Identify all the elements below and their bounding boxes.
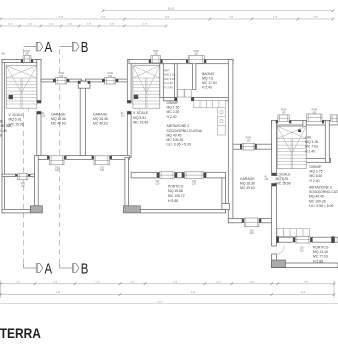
svg-text:MC 109.26: MC 109.26 [0,134,2,138]
wall portico2 right corner [222,204,230,210]
door jamb [204,172,207,178]
svg-text:MQ 5.91: MQ 5.91 [276,177,289,181]
label window north [108,73,113,78]
dimension bottom row 2 [0,292,335,296]
pillar portico3 [272,260,286,267]
door jamb [16,174,18,177]
svg-text:MC 109.72: MC 109.72 [168,194,185,198]
stair unit3 [277,126,306,168]
svg-text:H 2.40: H 2.40 [310,179,320,183]
garage3 door [244,218,259,227]
label stair2 [133,111,149,125]
svg-text:WC 15.96: WC 15.96 [276,182,291,186]
wall unit2 left lower [127,112,131,158]
svg-text:MQ 13.16: MQ 13.16 [313,250,328,254]
svg-text:MC 49.63: MC 49.63 [51,122,66,126]
svg-text:t.d.i. 9.56 > 5.09: t.d.i. 9.56 > 5.09 [309,204,334,208]
svg-text:MQ 3.18: MQ 3.18 [305,140,318,144]
svg-text:MQ 15.68: MQ 15.68 [168,189,183,193]
dim left end [0,281,2,298]
wall garage front w [36,156,47,160]
svg-text:MC 49.63: MC 49.63 [93,122,108,126]
door jamb [53,79,56,82]
window garage2 north [105,77,116,84]
wall bagno left [193,63,196,90]
label abitazione3 [309,186,338,208]
door jamb [21,60,23,63]
jamb unit1 door top [37,100,41,103]
svg-text:MQ 18.36: MQ 18.36 [240,182,255,186]
door jamb [182,172,185,178]
svg-text:GARAGE: GARAGE [51,113,66,117]
svg-text:SOGGIORNO-CUCINA: SOGGIORNO-CUCINA [0,124,12,128]
svg-text:120: 120 [55,169,60,172]
wall portico2 right [222,178,226,210]
wall connecting unit2-unit3 [233,144,272,149]
label disimp3 [310,165,323,183]
jamb unit3 door top [272,173,277,176]
wall unit1 top [2,60,41,63]
svg-text:MQ 7.8: MQ 7.8 [202,76,213,80]
door arc unit3 portico [276,246,284,254]
wall rip right [175,64,178,98]
door jamb [322,120,324,123]
section marker B bottom [60,264,72,268]
window portico3 [295,236,310,243]
window unit3 north3 [331,115,338,122]
jamb unit1 door bottom [37,112,41,115]
wall unit3 bottom [272,263,338,268]
wall unit1 bottom e [30,174,35,177]
window garage1 north [56,77,67,84]
label window unit1 south [21,182,26,188]
window bagno north [188,56,204,64]
jamb portico3 west [276,237,279,243]
wall unit2 top [129,60,233,64]
door jamb [88,81,90,84]
wall unit3 left lower [272,254,277,267]
door jamb [64,156,66,160]
door jamb [161,60,163,64]
door jamb [149,60,151,64]
wall portico3 top mid [312,237,331,242]
section arrow B top [72,40,88,56]
svg-text:PORTICO: PORTICO [313,246,329,250]
svg-text:120: 120 [250,232,255,235]
svg-text:POM: POM [312,110,317,112]
label abitazione2 [167,124,203,146]
wall portico1 side [35,156,39,206]
stair unit1 [6,66,37,109]
pillar portico2 [123,206,140,213]
kitchen counter unit2 [194,101,225,135]
svg-text:B: B [81,40,89,56]
svg-text:16.10: 16.10 [168,8,175,11]
dimension row C (partials) [0,24,167,28]
svg-text:WC 15.96: WC 15.96 [133,121,148,125]
wall garage1 top [41,79,82,82]
label door1 [42,113,47,118]
door jamb [191,97,194,100]
svg-text:120: 120 [155,183,160,186]
door jamb [47,156,49,160]
door jamb [310,237,312,242]
door arc unit2 [131,103,140,112]
door jamb [259,218,261,222]
wall garage divider [80,81,85,156]
section marker B top [60,46,72,48]
svg-text:H 5.88: H 5.88 [313,259,323,263]
stair unit2 [133,66,160,109]
svg-text:DISIMP.: DISIMP. [310,165,322,169]
window unit2 south [160,172,175,179]
door jamb [242,218,244,222]
wall unit2 bottom w [131,172,157,178]
label garage1 [51,113,66,126]
label bagno [202,72,217,90]
label window connecting [246,138,251,143]
svg-text:120: 120 [192,183,197,186]
svg-text:SOGGIORNO-CUCINA: SOGGIORNO-CUCINA [167,129,203,133]
svg-text:MQ 18.36: MQ 18.36 [51,117,66,121]
window unit3 north1 [278,115,289,122]
door jamb [92,156,94,160]
door jamb [175,172,178,178]
window unit1 north [23,56,31,63]
jamb unit2 door top [127,100,131,103]
wall portico2 left [125,158,129,206]
stair1 arrow [9,95,13,99]
wall portico3 top w [276,237,293,242]
svg-text:MQ 40.45: MQ 40.45 [167,133,182,137]
label window portico3 [300,247,305,253]
label window left edge [1,54,6,56]
svg-text:GARAGE: GARAGE [93,113,108,117]
jamb portico3 door [332,236,335,243]
svg-text:SOGGIORNO-CUCINA: SOGGIORNO-CUCINA [309,190,338,194]
wall unit3 left upper [272,120,277,175]
sheet line [0,301,338,303]
wall garage front mid [66,156,92,160]
svg-text:MC 2.26: MC 2.26 [167,110,180,114]
pillar portico1 [30,206,42,213]
svg-text:H 2.40: H 2.40 [167,115,177,119]
section line B dashed [59,49,61,264]
door jamb [174,97,177,100]
label rip room [164,69,175,90]
window unit3 north2 [307,114,322,122]
door arc unit1 [28,103,37,112]
svg-text:ABITAZIONE 1: ABITAZIONE 1 [0,120,6,124]
garage2 door [94,156,110,165]
svg-text:120: 120 [100,169,105,172]
label portico2 [168,184,185,203]
svg-text:H 2.40: H 2.40 [305,149,315,153]
door jamb [28,174,30,177]
svg-text:MQ 2.75: MQ 2.75 [310,170,323,174]
svg-text:MC 7.63: MC 7.63 [305,145,318,149]
label portico3 [313,246,329,264]
stair2 arrow [134,95,138,99]
label window unit3 north [312,110,317,115]
curb portico1 [2,209,30,213]
svg-text:TERRA: TERRA [0,325,41,341]
door jamb [305,120,307,123]
wall unit3 left mid [272,184,277,247]
hall double door [177,89,191,97]
label window north [193,51,198,56]
svg-text:MC 109.26: MC 109.26 [309,199,326,203]
wall stair2/rip [160,64,164,98]
door jamb [110,156,112,160]
door unit2 south [185,172,204,179]
label disimp2 [167,101,180,119]
svg-text:GARAGE: GARAGE [240,177,255,181]
stair3 arrow [298,130,301,133]
svg-text:BAGNO: BAGNO [202,72,215,76]
door jamb [116,79,119,82]
svg-text:V. SCALE: V. SCALE [9,113,25,117]
door jamb [276,120,278,123]
svg-text:H 2.40: H 2.40 [164,85,173,89]
wall unit1/garage1 lower [37,112,41,160]
door jamb [293,237,295,242]
svg-text:t.d.i. 9.36 > 5.09: t.d.i. 9.36 > 5.09 [167,143,192,147]
jamb unit2 door bottom [127,112,131,115]
door jamb [289,120,291,123]
wall garage divider head [78,81,90,88]
svg-text:41.10: 41.10 [157,301,163,303]
svg-text:MC 77.03: MC 77.03 [313,255,328,259]
dim right end [333,281,335,298]
svg-text:120: 120 [21,185,26,188]
wall hall south w [163,97,177,100]
wall lav bottom [303,158,331,162]
window unit1 south [18,173,28,179]
dimension row B (segments) [0,17,334,21]
svg-text:ABITAZIONE 2: ABITAZIONE 2 [167,124,190,128]
label garage3 [240,177,255,190]
window connecting wall [242,143,255,150]
wall stair3/lav [303,120,306,162]
svg-text:120: 120 [300,249,305,252]
wall hall south e [191,97,228,100]
door jamb [31,60,33,63]
label window unit2 south [155,180,160,186]
svg-text:H 5.88: H 5.88 [168,199,178,203]
svg-text:POM: POM [193,51,198,53]
svg-text:A: A [45,262,53,278]
kitchen counter unit3 [277,229,310,237]
wall unit3 top [272,120,338,125]
wall unit2 bottom e [206,172,226,178]
door jamb [255,144,257,149]
svg-text:POM: POM [281,110,286,112]
label garage3 door [250,230,255,236]
svg-text:MQ 40.45: MQ 40.45 [0,129,7,133]
door jamb [204,60,206,64]
svg-text:MQ 40.45: MQ 40.45 [309,195,324,199]
svg-text:POM: POM [59,73,64,75]
wall unit1/garage1 upper [37,60,41,104]
svg-text:PORTICO: PORTICO [168,184,184,188]
svg-text:MC 109.26: MC 109.26 [167,138,184,142]
svg-text:MQ 18.36: MQ 18.36 [93,117,108,121]
label window north [153,51,158,56]
wall unit1 bottom w [2,174,16,177]
wall lav right [325,120,329,162]
garage1 door [50,156,65,165]
label stair3 [276,173,292,186]
section marker A top [24,46,36,48]
door jamb [67,79,70,82]
svg-text:ABITAZIONE 3: ABITAZIONE 3 [309,186,332,190]
wall garage3 bottom e [261,218,272,222]
svg-text:V. SCALE: V. SCALE [133,111,149,115]
svg-text:MQ 1.50: MQ 1.50 [167,106,180,110]
section arrow A top [36,40,52,56]
label stair1 [9,113,25,127]
svg-text:B: B [81,262,89,278]
svg-text:POM: POM [153,51,158,53]
door jamb [157,172,160,178]
label door2 [121,113,126,118]
wall portico3 top e [335,237,338,242]
door arc unit3 garage [276,176,284,184]
wall garage front e [112,156,130,160]
wall unit1 left edge [2,60,5,213]
wall garage2 top [86,79,130,82]
svg-text:H 2.40: H 2.40 [202,86,212,90]
svg-text:A: A [45,40,53,56]
wall unit2 left upper [127,60,131,104]
label garage2 door [100,166,105,172]
label garage1 door [55,166,60,172]
svg-text:MC 17.54: MC 17.54 [202,81,217,85]
jamb unit3 door bottom [272,184,277,187]
section line A dashed [23,49,25,264]
section marker A bottom [24,264,36,268]
label door3 [265,177,270,182]
door jamb [186,60,188,64]
curb portico2 [140,209,225,213]
label window north [59,73,64,78]
wall unit2 right / unit3 boundary [228,60,233,223]
svg-text:MQ 5.91: MQ 5.91 [133,116,146,120]
svg-text:MQ 5.91: MQ 5.91 [9,118,22,122]
wall unit2 bottom mid [177,172,182,178]
svg-text:POM: POM [246,138,251,140]
door jamb [240,144,242,149]
label lav [305,136,318,154]
label window unit3 north [281,110,286,115]
svg-text:MC 49.63: MC 49.63 [240,186,255,190]
svg-text:LAV.: LAV. [305,136,312,140]
svg-text:POM: POM [24,51,29,53]
door jamb [78,81,80,84]
label cut at left edge [0,120,12,138]
svg-text:POM: POM [108,73,113,75]
section arrow A bottom [36,262,52,278]
svg-text:DISIMP.: DISIMP. [167,101,179,105]
label window north [24,51,29,56]
door jamb [102,79,105,82]
label garage2 [93,113,108,126]
dimension bottom row 1 [0,281,335,285]
wall garage3 bottom w [228,218,242,222]
label door unit2 south [192,180,197,186]
svg-text:MC 6.60: MC 6.60 [310,174,323,178]
section arrow B bottom [72,262,88,278]
dimension row A (overall 16.10) [102,8,335,13]
window stair2 north [151,56,161,63]
svg-text:V. SCALE: V. SCALE [276,173,292,177]
